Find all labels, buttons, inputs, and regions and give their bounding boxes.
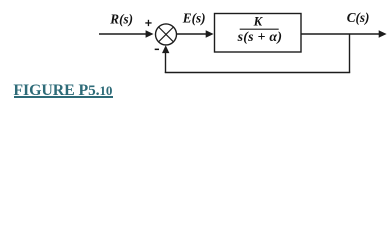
- minus sign at summing junction feedback input: [155, 49, 159, 51]
- wire: input from R(s) to summing junction: [99, 30, 154, 37]
- wire: output C(s): [301, 30, 387, 37]
- fraction bar: [240, 28, 279, 30]
- svg-text:s(s + α): s(s + α): [237, 30, 283, 45]
- wire: feedback takeoff vertical: [349, 34, 351, 73]
- block G(s): transfer function K/s(s+alpha): [215, 14, 302, 53]
- wire: feedback vertical up into summing junction: [162, 45, 169, 73]
- figure caption FIGURE P5.10: [13, 86, 112, 97]
- svg-text:C(s): C(s): [347, 10, 370, 25]
- figure caption underline: [14, 96, 113, 98]
- svg-text:K: K: [253, 15, 264, 29]
- summing junction (circle with X): [156, 24, 177, 45]
- plus sign at summing junction: [145, 20, 151, 26]
- wire: feedback bottom run: [165, 72, 350, 74]
- svg-text:E(s): E(s): [182, 11, 206, 26]
- svg-text:R(s): R(s): [109, 11, 133, 26]
- wire: E(s) from summing junction to block: [177, 30, 214, 37]
